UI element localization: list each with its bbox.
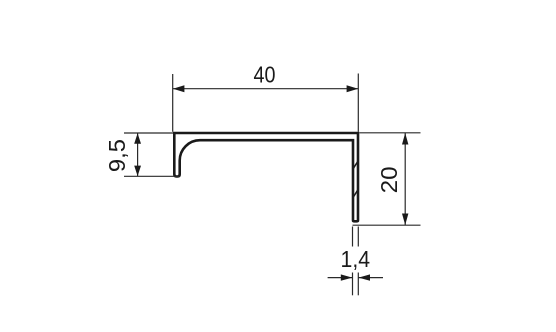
dim 1,4: right extension line (upper + lower segments) xyxy=(357,227,359,247)
dim 1,4: left dimension line tail xyxy=(328,277,353,279)
svg-text:1,4: 1,4 xyxy=(341,246,371,272)
dim 1,4: right dimension line tail xyxy=(358,277,383,279)
dim 20: dimension line xyxy=(404,133,406,225)
dim 9,5: top extension line xyxy=(124,132,173,134)
dim 40: dimension line xyxy=(173,88,359,90)
dim 40: left extension line xyxy=(172,74,174,132)
dim 40: right extension line xyxy=(357,74,359,132)
dim 40: right arrowhead xyxy=(347,85,359,92)
leg break mark 2 xyxy=(353,190,358,198)
dim 9,5: bottom arrowhead xyxy=(134,166,141,177)
dim 20: top arrowhead xyxy=(402,133,408,145)
svg-text:40: 40 xyxy=(254,61,276,87)
dim 1,4: right arrowhead xyxy=(359,274,371,280)
dim 20: top extension line xyxy=(360,132,421,134)
profile outline (40x20 J-profile cross-section) xyxy=(174,133,358,221)
dim 9,5: dimension line xyxy=(137,133,139,176)
leg break mark 1 xyxy=(353,162,358,170)
dim 9,5: top arrowhead xyxy=(134,133,141,144)
svg-text:9,5: 9,5 xyxy=(104,139,130,172)
dim 9,5: bottom extension line xyxy=(124,175,180,177)
dim 1,4: left extension line (upper + lower segments) xyxy=(352,227,354,247)
dim 20: bottom extension line xyxy=(353,224,421,226)
dim 1,4: left arrowhead xyxy=(341,274,353,280)
dim 40: left arrowhead xyxy=(173,85,185,92)
svg-text:20: 20 xyxy=(376,166,402,193)
dim 20: bottom arrowhead xyxy=(402,214,408,226)
